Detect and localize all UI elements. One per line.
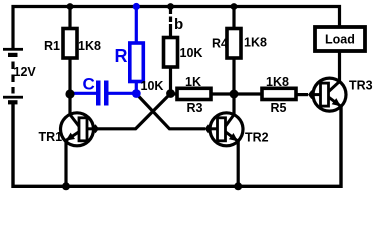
capacitor C plate right bbox=[104, 81, 109, 106]
capacitor C plate left bbox=[96, 81, 101, 106]
svg-text:1K: 1K bbox=[185, 75, 201, 89]
transistor TR3 bbox=[308, 78, 346, 111]
svg-text:R1: R1 bbox=[44, 39, 60, 53]
node b dashed stub under top rail bbox=[169, 7, 172, 39]
wire R5 right lead to TR3 base bbox=[296, 93, 308, 96]
wire bottom rail with battery and TR3 emitter verticals bbox=[13, 104, 341, 186]
svg-text:1K8: 1K8 bbox=[244, 36, 267, 50]
wire cross-coupling diagonal from blue node to TR2 base bbox=[136, 94, 205, 129]
svg-text:R3: R3 bbox=[187, 101, 203, 115]
junction node on top rail at blue R bbox=[133, 3, 140, 10]
svg-text:TR1: TR1 bbox=[39, 130, 63, 144]
resistor R1 body bbox=[63, 29, 77, 59]
junction node at blue R bottom and capacitor bbox=[132, 89, 141, 98]
wire R1 top lead bbox=[68, 7, 71, 30]
junction node at TR2 emitter on ground rail bbox=[234, 182, 242, 190]
svg-text:1K8: 1K8 bbox=[266, 75, 289, 89]
wire blue R bottom lead bbox=[135, 81, 138, 93]
svg-text:10K: 10K bbox=[141, 79, 164, 93]
wire R5 left lead bbox=[234, 92, 263, 95]
wire R1 bottom lead / TR1 collector bbox=[68, 58, 71, 116]
junction node at R3 R4 R5 and TR2 collector bbox=[230, 90, 239, 99]
wire top rail with corners to battery and Load bbox=[13, 7, 340, 49]
svg-text:10K: 10K bbox=[180, 46, 203, 60]
svg-text:R5: R5 bbox=[271, 101, 287, 115]
svg-text:R: R bbox=[115, 46, 128, 66]
battery B1 short plate top bbox=[8, 53, 18, 57]
resistor 10K body bbox=[164, 38, 178, 68]
battery B1 dashed cell line bbox=[11, 62, 14, 94]
resistor R4 body bbox=[227, 29, 241, 59]
wire R3 left lead bbox=[171, 92, 178, 95]
junction node at 10K bottom and R3 bbox=[166, 89, 175, 98]
wire Load bottom to TR3 collector bbox=[338, 51, 341, 82]
svg-text:TR2: TR2 bbox=[245, 131, 269, 145]
junction node at TR1 collector and capacitor bbox=[65, 89, 74, 98]
battery B1 long plate top bbox=[3, 48, 23, 51]
capacitor C right blue wire bbox=[109, 92, 136, 95]
battery B1 short plate bottom bbox=[8, 100, 18, 104]
wire R3 right lead bbox=[211, 92, 234, 95]
junction node at TR1 emitter on ground rail bbox=[62, 182, 70, 190]
resistor R5 body bbox=[262, 88, 296, 99]
wire cross-coupling diagonal from 10K node to TR1 base bbox=[96, 94, 171, 129]
battery B1 long plate bottom bbox=[3, 96, 23, 99]
wire R4 top lead bbox=[232, 7, 235, 30]
wire TR1 emitter to ground rail bbox=[64, 140, 67, 186]
svg-text:1K8: 1K8 bbox=[78, 39, 101, 53]
junction node on top rail at R4 bbox=[231, 3, 238, 10]
svg-text:R4: R4 bbox=[212, 37, 228, 51]
wire R4 bottom lead / TR2 collector bbox=[232, 58, 235, 116]
wire TR2 emitter to ground rail bbox=[237, 140, 240, 186]
junction node on top rail at R1 bbox=[67, 3, 74, 10]
svg-text:C: C bbox=[83, 75, 95, 94]
svg-text:b: b bbox=[174, 16, 183, 33]
wire blue R top lead bbox=[135, 7, 138, 44]
svg-text:TR3: TR3 bbox=[349, 79, 373, 93]
wire 10K bottom lead bbox=[169, 67, 172, 95]
resistor R body (blue highlighted) bbox=[130, 43, 144, 82]
transistor TR1 bbox=[61, 113, 100, 146]
junction node on top rail at 10K bbox=[167, 3, 174, 10]
resistor R3 body bbox=[177, 88, 211, 99]
svg-text:12V: 12V bbox=[14, 65, 37, 79]
svg-text:Load: Load bbox=[325, 32, 355, 46]
load box bbox=[315, 27, 365, 51]
transistor TR2 bbox=[205, 113, 244, 146]
capacitor C left blue wire bbox=[71, 92, 97, 95]
